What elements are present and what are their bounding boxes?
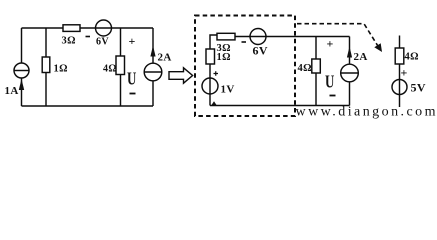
svg-text:1V: 1V (221, 84, 235, 96)
polarity plus of 1V circuit2 (214, 71, 219, 75)
transform arrow (hollow right arrow) (169, 68, 193, 83)
svg-text:1Ω: 1Ω (217, 52, 231, 63)
voltage source 6V circuit2 (250, 29, 266, 45)
arrow: small arrowhead on circuit2 bottom wire (212, 101, 217, 105)
wire: circuit2 left edge top (210, 35, 217, 49)
wire: circuit2 top right of 3ohm through 6V (235, 36, 350, 38)
arrow: 1A current direction (19, 79, 24, 90)
svg-text:1Ω: 1Ω (54, 64, 68, 75)
svg-text:+: + (327, 37, 334, 51)
svg-text:1A: 1A (5, 85, 19, 97)
svg-text:2A: 2A (354, 51, 368, 63)
dashed box around circuit2 left part (195, 16, 295, 117)
svg-text:www.diangon.com: www.diangon.com (296, 105, 436, 120)
wire: circuit2 bottom (210, 105, 350, 107)
svg-text:2A: 2A (158, 52, 172, 64)
svg-text:+: + (129, 34, 136, 48)
resistor 1ohm circuit1 (42, 57, 50, 73)
svg-text:6V: 6V (96, 37, 109, 48)
resistor 4ohm circuit1 (116, 56, 125, 75)
svg-text:+: + (401, 66, 408, 80)
wire: circuit2 right edge (349, 37, 351, 106)
svg-text:4Ω: 4Ω (298, 63, 312, 74)
arrow: 2A current direction circuit1 (150, 46, 155, 57)
voltage source 1V circuit2 (202, 78, 218, 94)
resistor 4ohm equivalent branch (395, 48, 404, 64)
resistor 3ohm circuit2 (217, 33, 235, 40)
wire: circuit2 4ohm branch (315, 37, 317, 106)
wire: circuit1 left edge (21, 28, 23, 106)
svg-text:U: U (127, 70, 137, 90)
current source 1A circuit1 (14, 63, 29, 78)
svg-text:6V: 6V (253, 44, 268, 58)
resistor 1ohm circuit2 (206, 49, 215, 64)
polarity minus of 6V circuit1 (86, 36, 91, 38)
wire: circuit1 1ohm branch (45, 28, 47, 106)
wire: equivalent branch top lead (399, 36, 401, 49)
wire: circuit1 right edge (152, 28, 154, 106)
arrow: 2A current direction circuit2 (347, 47, 352, 58)
svg-text:4Ω: 4Ω (103, 64, 117, 75)
wire: equivalent branch bottom lead through 5V (399, 64, 401, 107)
svg-text:U: U (325, 73, 335, 93)
current source 2A circuit2 (341, 64, 359, 82)
polarity minus of 6V circuit2 (242, 41, 247, 43)
wire: circuit1 top (22, 27, 64, 29)
voltage U minus sign circuit1 (130, 93, 136, 95)
voltage source 6V circuit1 (96, 20, 112, 36)
svg-text:3Ω: 3Ω (62, 36, 76, 47)
resistor 4ohm circuit2 (312, 59, 321, 73)
current source 2A circuit1 (144, 63, 162, 81)
wire: circuit2 left edge bottom through 1V (209, 64, 211, 106)
voltage source 5V equivalent branch (392, 80, 407, 95)
resistor 3ohm circuit1 (63, 25, 80, 32)
transform arrow (dashed curved arrow top right) (297, 24, 379, 47)
voltage U minus sign circuit2 (330, 95, 336, 97)
svg-text:5V: 5V (411, 81, 426, 95)
wire: circuit1 top right of 3ohm through 6V (80, 27, 153, 29)
svg-text:4Ω: 4Ω (405, 52, 419, 63)
wire: circuit1 bottom (22, 105, 154, 107)
wire: circuit1 4ohm branch (120, 28, 122, 106)
